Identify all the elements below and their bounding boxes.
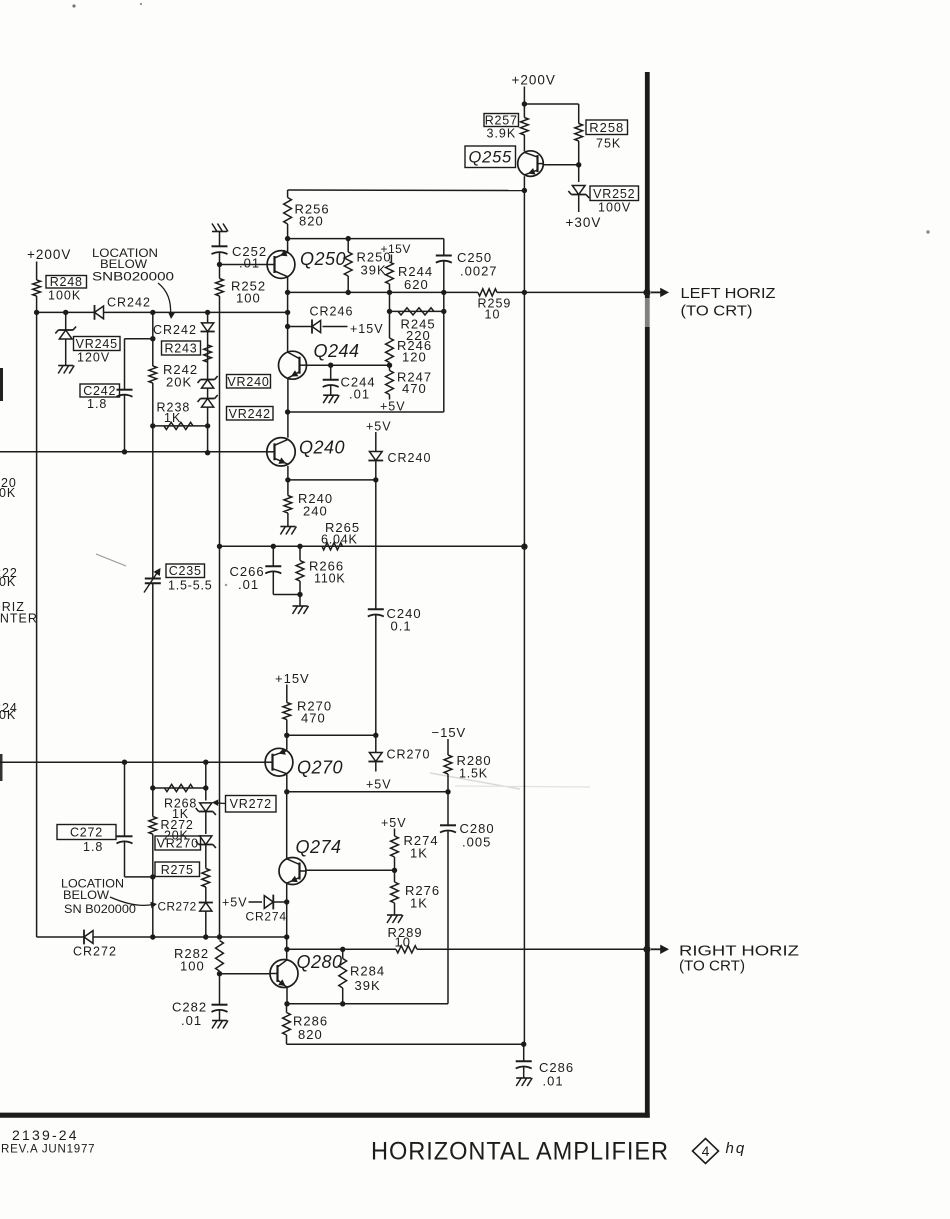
svg-text:CR274: CR274 bbox=[246, 910, 287, 924]
svg-text:R257: R257 bbox=[485, 114, 518, 128]
svg-text:VR270: VR270 bbox=[157, 837, 199, 851]
svg-text:+5V: +5V bbox=[366, 420, 392, 434]
svg-text:820: 820 bbox=[298, 1027, 323, 1042]
svg-text:1K: 1K bbox=[410, 846, 428, 861]
svg-text:120: 120 bbox=[402, 350, 427, 365]
svg-text:C272: C272 bbox=[70, 826, 103, 840]
svg-text:100: 100 bbox=[180, 959, 205, 974]
svg-text:120V: 120V bbox=[77, 351, 110, 365]
svg-text:75K: 75K bbox=[596, 137, 621, 151]
svg-text:VR242: VR242 bbox=[229, 407, 271, 421]
svg-text:110K: 110K bbox=[314, 572, 345, 586]
svg-text:+5V: +5V bbox=[222, 896, 248, 910]
svg-text:820: 820 bbox=[299, 214, 324, 229]
svg-text:1.5K: 1.5K bbox=[459, 767, 488, 781]
svg-text:10: 10 bbox=[485, 308, 501, 322]
svg-text:1.8: 1.8 bbox=[83, 840, 103, 854]
svg-text:10K: 10K bbox=[0, 575, 16, 589]
svg-text:C235: C235 bbox=[169, 564, 202, 578]
svg-text:CR270: CR270 bbox=[387, 748, 431, 762]
svg-text:4: 4 bbox=[702, 1143, 710, 1159]
svg-text:20K: 20K bbox=[166, 375, 192, 390]
svg-text:R258: R258 bbox=[589, 120, 624, 135]
svg-text:C242: C242 bbox=[83, 384, 116, 398]
svg-text:R275: R275 bbox=[161, 863, 194, 877]
svg-text:+15V: +15V bbox=[381, 242, 411, 256]
svg-text:LEFT HORIZ: LEFT HORIZ bbox=[681, 285, 776, 302]
svg-text:1.8: 1.8 bbox=[87, 397, 107, 411]
svg-text:1K: 1K bbox=[164, 411, 181, 425]
svg-text:6.04K: 6.04K bbox=[321, 533, 358, 547]
svg-text:Q240: Q240 bbox=[299, 438, 345, 458]
svg-text:.01: .01 bbox=[239, 256, 260, 271]
svg-text:Q280: Q280 bbox=[297, 952, 343, 972]
svg-text:Q244: Q244 bbox=[314, 341, 360, 361]
svg-text:SN B020000: SN B020000 bbox=[64, 902, 136, 916]
svg-text:10K: 10K bbox=[0, 486, 16, 500]
svg-text:(TO CRT): (TO CRT) bbox=[679, 958, 745, 975]
svg-text:39K: 39K bbox=[361, 263, 387, 278]
svg-text:0.1: 0.1 bbox=[391, 619, 412, 634]
svg-text:+200V: +200V bbox=[512, 73, 556, 88]
svg-text:Q250: Q250 bbox=[300, 249, 346, 269]
svg-text:Q274: Q274 bbox=[296, 837, 342, 857]
svg-text:ENTER: ENTER bbox=[0, 612, 38, 626]
svg-text:VR245: VR245 bbox=[76, 337, 118, 351]
svg-text:.01: .01 bbox=[181, 1013, 202, 1028]
svg-text:CR272: CR272 bbox=[73, 945, 117, 959]
svg-text:VR240: VR240 bbox=[227, 375, 269, 389]
svg-text:2139-24: 2139-24 bbox=[12, 1127, 79, 1143]
svg-text:39K: 39K bbox=[355, 978, 381, 993]
svg-text:HORIZONTAL AMPLIFIER: HORIZONTAL AMPLIFIER bbox=[371, 1138, 669, 1166]
svg-text:.01: .01 bbox=[543, 1074, 564, 1089]
svg-text:+15V: +15V bbox=[275, 671, 310, 686]
svg-text:240: 240 bbox=[303, 504, 328, 519]
svg-text:1K: 1K bbox=[410, 896, 428, 911]
svg-text:CR272: CR272 bbox=[158, 900, 197, 914]
svg-text:CR242: CR242 bbox=[107, 296, 151, 310]
svg-text:−15V: −15V bbox=[432, 725, 467, 740]
svg-text:+30V: +30V bbox=[566, 215, 602, 230]
svg-text:.005: .005 bbox=[462, 835, 491, 850]
svg-text:BELOW: BELOW bbox=[63, 888, 110, 902]
svg-text:10: 10 bbox=[395, 935, 411, 950]
svg-text:CR240: CR240 bbox=[388, 451, 432, 465]
svg-text:+5V: +5V bbox=[366, 778, 392, 792]
svg-text:+15V: +15V bbox=[350, 322, 384, 336]
svg-text:.01: .01 bbox=[238, 577, 259, 592]
svg-text:100K: 100K bbox=[48, 289, 81, 303]
svg-text:470: 470 bbox=[301, 711, 326, 726]
svg-text:100V: 100V bbox=[598, 201, 631, 215]
svg-text:Q270: Q270 bbox=[297, 758, 343, 778]
svg-text:SNB020000: SNB020000 bbox=[92, 270, 174, 284]
svg-text:1.5-5.5: 1.5-5.5 bbox=[168, 579, 213, 593]
svg-text:VR252: VR252 bbox=[593, 187, 635, 201]
svg-text:100: 100 bbox=[236, 291, 261, 306]
svg-text:(TO CRT): (TO CRT) bbox=[681, 303, 753, 320]
svg-text:CR242: CR242 bbox=[153, 323, 197, 337]
svg-text:hq: hq bbox=[726, 1140, 747, 1157]
svg-text:.01: .01 bbox=[349, 387, 370, 402]
svg-text:VR272: VR272 bbox=[230, 797, 272, 811]
svg-text:+200V: +200V bbox=[27, 247, 71, 262]
svg-text:+5V: +5V bbox=[381, 816, 407, 830]
svg-text:10K: 10K bbox=[0, 708, 16, 722]
svg-text:Q255: Q255 bbox=[468, 149, 512, 167]
svg-text:REV.A JUN1977: REV.A JUN1977 bbox=[1, 1144, 95, 1156]
svg-text:620: 620 bbox=[404, 277, 429, 292]
svg-text:R284: R284 bbox=[350, 964, 385, 979]
svg-text:CR246: CR246 bbox=[310, 305, 354, 319]
svg-text:.0027: .0027 bbox=[460, 264, 498, 279]
svg-text:3.9K: 3.9K bbox=[487, 127, 517, 141]
svg-text:R243: R243 bbox=[164, 342, 197, 356]
svg-text:R248: R248 bbox=[50, 275, 83, 289]
svg-text:470: 470 bbox=[402, 381, 427, 396]
